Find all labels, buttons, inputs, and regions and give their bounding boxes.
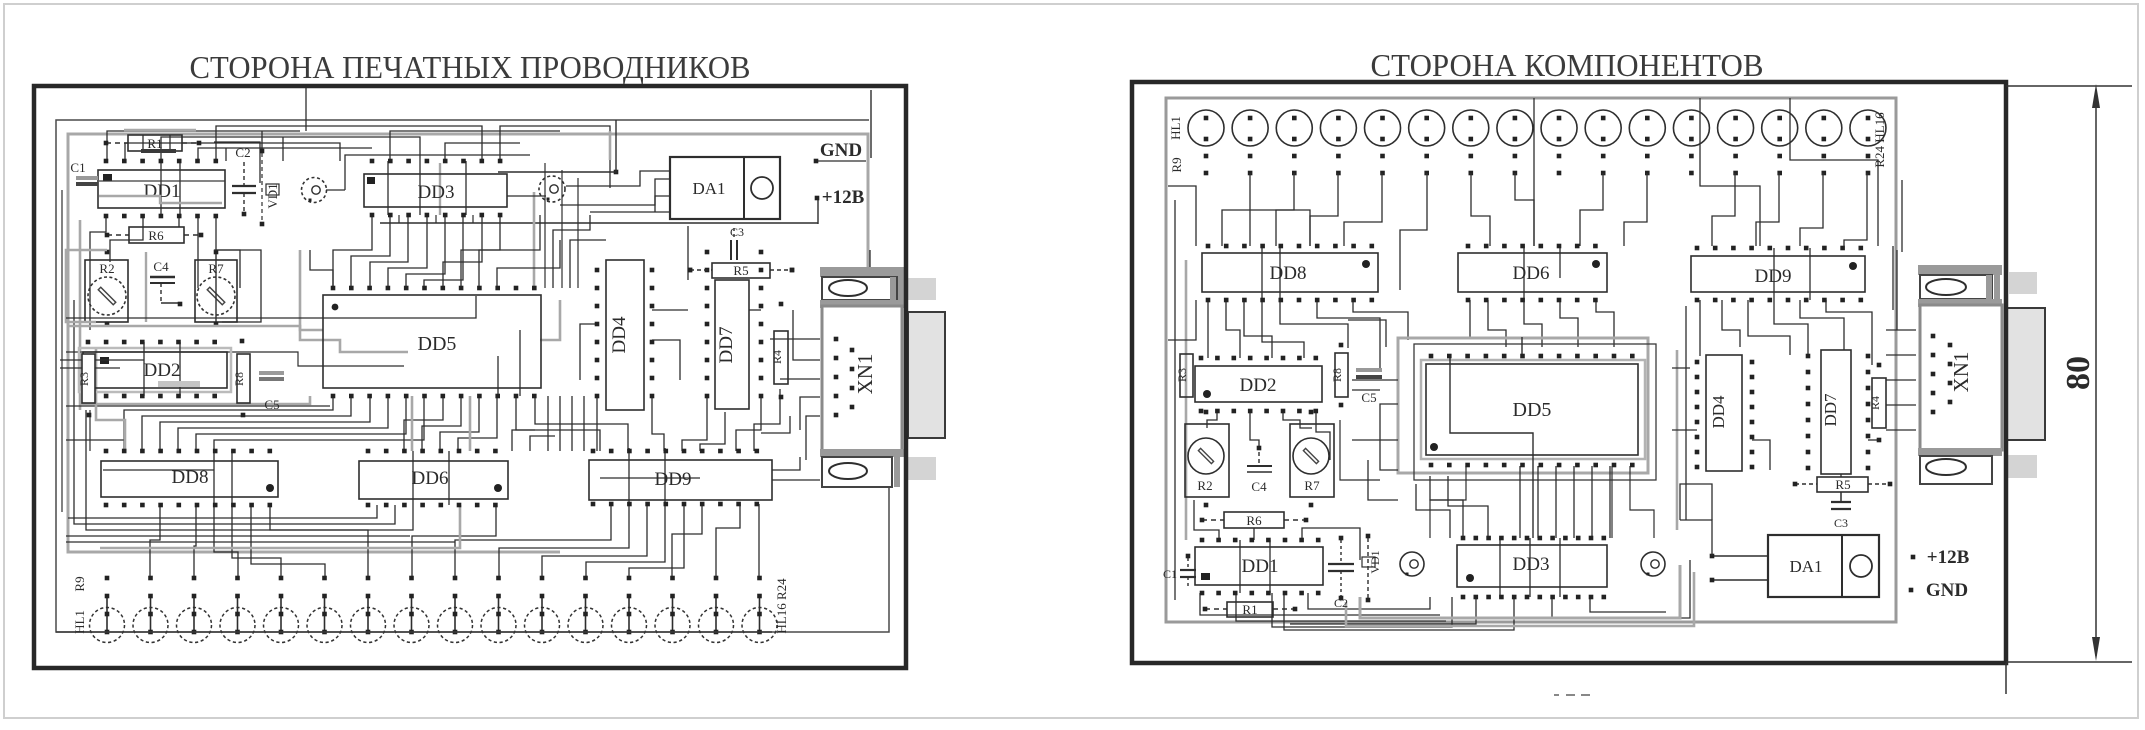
- svg-text:HL16 R24: HL16 R24: [774, 578, 789, 634]
- svg-text:DD8: DD8: [172, 467, 209, 488]
- svg-text:GND: GND: [820, 140, 862, 161]
- svg-text:DD4: DD4: [1709, 395, 1728, 429]
- svg-text:+12B: +12B: [1927, 547, 1970, 568]
- svg-text:C4: C4: [153, 259, 169, 274]
- svg-text:C3: C3: [730, 225, 744, 239]
- svg-text:СТОРОНА ПЕЧАТНЫХ ПРОВОДНИКОВ: СТОРОНА ПЕЧАТНЫХ ПРОВОДНИКОВ: [190, 49, 751, 85]
- svg-text:DD7: DD7: [716, 327, 737, 364]
- svg-text:DD3: DD3: [418, 182, 455, 203]
- svg-text:R6: R6: [1246, 513, 1262, 528]
- svg-text:DD5: DD5: [1513, 399, 1552, 421]
- svg-text:XN1: XN1: [1949, 352, 1973, 393]
- svg-text:XN1: XN1: [853, 354, 877, 395]
- svg-text:C1: C1: [1163, 567, 1177, 581]
- svg-text:R3: R3: [1175, 368, 1189, 382]
- svg-text:R3: R3: [77, 372, 91, 386]
- svg-text:DD2: DD2: [144, 360, 181, 381]
- svg-text:C5: C5: [264, 397, 279, 412]
- svg-text:80: 80: [2060, 356, 2097, 390]
- svg-text:DD1: DD1: [1242, 556, 1279, 577]
- svg-text:СТОРОНА КОМПОНЕНТОВ: СТОРОНА КОМПОНЕНТОВ: [1371, 47, 1764, 83]
- svg-text:DD7: DD7: [1821, 393, 1840, 427]
- svg-text:DD4: DD4: [609, 316, 630, 353]
- svg-text:R2: R2: [99, 261, 114, 276]
- svg-text:R7: R7: [1304, 478, 1320, 493]
- svg-text:DD5: DD5: [418, 333, 457, 355]
- svg-text:DD6: DD6: [412, 468, 449, 489]
- svg-text:DD6: DD6: [1513, 263, 1550, 284]
- svg-text:HL1: HL1: [72, 610, 87, 634]
- svg-text:R9: R9: [1169, 157, 1184, 172]
- svg-text:DD9: DD9: [1755, 266, 1792, 287]
- svg-text:C5: C5: [1361, 390, 1376, 405]
- svg-text:R6: R6: [148, 228, 164, 243]
- svg-text:R4: R4: [1868, 396, 1882, 410]
- svg-text:+12B: +12B: [822, 187, 865, 208]
- svg-text:R2: R2: [1197, 478, 1212, 493]
- svg-text:VD1: VD1: [265, 183, 280, 208]
- svg-text:C3: C3: [1834, 516, 1848, 530]
- svg-text:R9: R9: [72, 576, 87, 591]
- svg-text:R4: R4: [770, 350, 784, 364]
- svg-text:C4: C4: [1251, 479, 1267, 494]
- svg-text:R5: R5: [1835, 477, 1850, 492]
- svg-text:R1: R1: [147, 136, 162, 151]
- svg-text:C1: C1: [70, 160, 85, 175]
- svg-text:DD9: DD9: [655, 469, 692, 490]
- svg-text:R8: R8: [232, 372, 246, 386]
- svg-text:R8: R8: [1330, 368, 1344, 382]
- svg-text:DD3: DD3: [1513, 554, 1550, 575]
- svg-text:DD1: DD1: [144, 181, 181, 202]
- svg-text:R5: R5: [733, 263, 748, 278]
- svg-text:DD8: DD8: [1270, 263, 1307, 284]
- svg-text:DA1: DA1: [692, 179, 725, 198]
- svg-text:HL1: HL1: [1168, 116, 1183, 140]
- svg-text:DD2: DD2: [1240, 375, 1277, 396]
- svg-text:R24 HL16: R24 HL16: [1872, 112, 1887, 168]
- svg-text:DA1: DA1: [1789, 557, 1822, 576]
- svg-text:C2: C2: [235, 145, 250, 160]
- svg-text:R1: R1: [1242, 602, 1257, 617]
- svg-text:GND: GND: [1926, 580, 1968, 601]
